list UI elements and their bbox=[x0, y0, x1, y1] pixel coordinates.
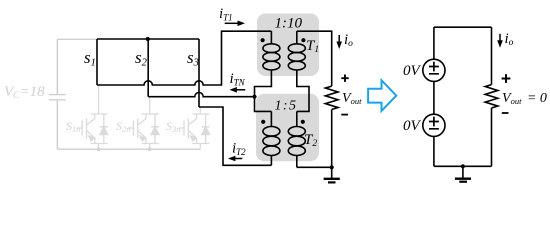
transistor S3n cell bbox=[178, 107, 209, 149]
transistor S1n cell bbox=[77, 85, 108, 149]
svg-text:iT2: iT2 bbox=[232, 141, 246, 158]
plus-minus marks source V1 bbox=[429, 62, 439, 74]
svg-text:1:5: 1:5 bbox=[275, 99, 297, 114]
right branch wire top bbox=[491, 27, 493, 84]
T2 secondary winding bbox=[296, 111, 298, 126]
capacitor C plates bbox=[49, 95, 66, 100]
junction node ground right bbox=[461, 164, 465, 168]
T1 polarity dots bbox=[261, 38, 265, 42]
svg-text:iTN: iTN bbox=[230, 71, 246, 88]
capacitor C vertical leads bbox=[56, 39, 58, 149]
switch s2 branch bbox=[147, 39, 149, 97]
wire T2 secondary to ground bbox=[297, 166, 332, 168]
svg-text:io: io bbox=[505, 31, 514, 48]
junction node load bottom bbox=[330, 165, 334, 169]
T2 polarity dots bbox=[261, 120, 265, 124]
left branch wires bbox=[433, 27, 435, 166]
blue equivalence arrow bbox=[368, 80, 396, 111]
wire line2 with hop (iTN) bbox=[148, 93, 254, 97]
gray rail junction dots bbox=[97, 147, 101, 151]
svg-text:iT1: iT1 bbox=[219, 6, 233, 23]
svg-text:S2n: S2n bbox=[116, 119, 131, 134]
current io arrow (right) bbox=[499, 34, 501, 44]
right branch wire bottom bbox=[491, 108, 493, 166]
svg-text:S1n: S1n bbox=[66, 119, 81, 134]
svg-text:0V: 0V bbox=[403, 118, 422, 134]
bottom gray rail bbox=[57, 148, 200, 150]
junction node top rail bbox=[146, 37, 150, 41]
svg-text:Vout: Vout bbox=[342, 91, 362, 106]
ground stub right bbox=[462, 166, 464, 178]
current io arrow (left) bbox=[338, 35, 340, 45]
minus sign (right Vout) bbox=[502, 112, 509, 114]
plus sign (right Vout) bbox=[502, 74, 511, 83]
resistor Rout right bbox=[485, 85, 498, 108]
svg-text:s3: s3 bbox=[187, 48, 199, 69]
svg-text:1:10: 1:10 bbox=[275, 16, 303, 32]
top rail bbox=[97, 38, 199, 40]
top rail right circuit bbox=[434, 26, 492, 28]
current iT1 arrow bbox=[225, 22, 241, 24]
voltage source V2 bbox=[423, 114, 445, 136]
T2 highlight box bbox=[256, 94, 319, 162]
ground symbol right bbox=[455, 177, 471, 179]
wire line1 with hops to T1 primary top bbox=[97, 31, 271, 85]
bottom rail right circuit bbox=[434, 165, 492, 167]
resistor Rload bbox=[325, 86, 338, 109]
transistor S2n cell bbox=[128, 97, 159, 150]
plus-minus marks source V2 bbox=[429, 117, 439, 129]
plus sign (left Vout) bbox=[341, 75, 348, 82]
minus sign (left Vout) bbox=[341, 114, 348, 116]
voltage source V1 bbox=[423, 59, 445, 81]
T1 primary winding bbox=[270, 31, 272, 44]
svg-text:0V: 0V bbox=[403, 63, 422, 79]
wire T1 secondary to load bbox=[297, 31, 332, 86]
T2 primary winding bbox=[270, 111, 272, 126]
switch s3 branch bbox=[198, 39, 200, 107]
ground symbol left bbox=[324, 178, 340, 180]
wire load bottom bbox=[331, 110, 333, 168]
svg-text:s2: s2 bbox=[135, 48, 148, 69]
capacitor C input wire top bbox=[57, 38, 97, 40]
current iT2 arrow bbox=[233, 158, 243, 160]
svg-text:S3n: S3n bbox=[166, 119, 181, 134]
ground stub left bbox=[331, 167, 333, 178]
svg-text:VC=18: VC=18 bbox=[4, 84, 45, 101]
wire line3 to T2 primary bottom bbox=[199, 107, 271, 165]
svg-text:Vout = 0: Vout = 0 bbox=[502, 91, 547, 106]
T1 highlight box bbox=[257, 14, 319, 77]
junction node iTN bbox=[252, 95, 256, 99]
current iTN arrow bbox=[234, 89, 245, 91]
T1 secondary winding bbox=[296, 31, 298, 44]
switch s1 branch bbox=[96, 39, 98, 85]
svg-text:io: io bbox=[344, 32, 353, 49]
svg-text:s1: s1 bbox=[84, 48, 96, 69]
